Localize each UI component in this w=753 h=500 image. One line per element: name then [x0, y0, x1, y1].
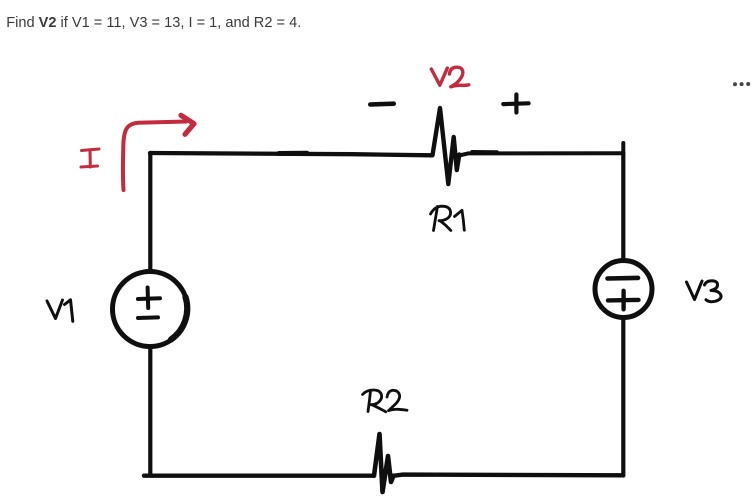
- polarity minus (left of R1): [370, 101, 393, 106]
- wire left upper: [148, 153, 152, 272]
- node top-right (right wire stub above corner): [621, 143, 625, 153]
- wire top-left overdraw: [279, 151, 307, 156]
- wire bottom-right segment: [394, 475, 624, 476]
- label R2: [363, 390, 408, 412]
- V3 plus sign: [608, 291, 639, 310]
- label V1: [47, 300, 73, 322]
- resistor R2: [374, 434, 394, 492]
- label V3: [687, 281, 722, 302]
- V1 minus sign: [138, 315, 158, 320]
- ellipsis menu dots: [733, 82, 750, 86]
- voltage source V1 overdraw arc: [171, 297, 187, 340]
- wire bottom-left segment: [144, 474, 374, 478]
- wire right upper: [621, 153, 625, 261]
- wire top-right segment: [459, 153, 623, 155]
- wire top-left segment: [150, 153, 432, 155]
- wire left lower: [148, 347, 152, 476]
- current arrow (red): [123, 122, 186, 191]
- wire right lower: [621, 318, 625, 476]
- polarity plus (right of R1): [503, 95, 528, 113]
- current arrow head (red): [181, 115, 194, 134]
- resistor R1: [433, 108, 460, 184]
- voltage source V1: [113, 272, 188, 347]
- label V2 (red): [431, 67, 469, 87]
- V1 plus sign: [138, 288, 160, 309]
- current label I (red): [81, 149, 99, 167]
- V3 minus sign: [608, 276, 639, 281]
- voltage source V3: [595, 261, 652, 318]
- wire top-right overdraw: [472, 150, 497, 154]
- label R1: [431, 206, 465, 230]
